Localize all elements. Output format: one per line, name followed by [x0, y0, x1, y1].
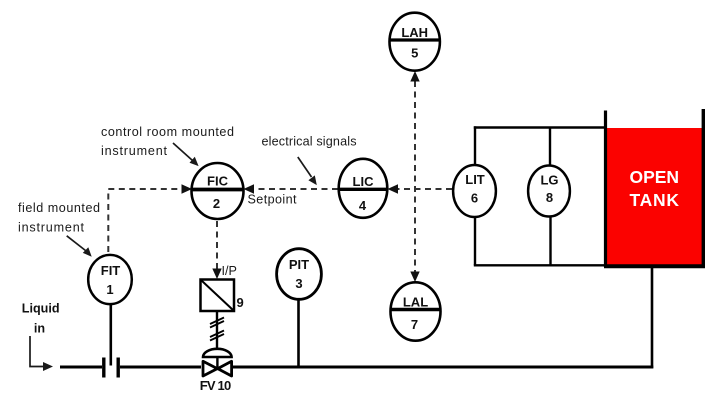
- svg-text:6: 6: [471, 191, 478, 206]
- wire: electrical dashed FIT to FIC vertical: [107, 189, 109, 252]
- standpipe bottom header: [474, 264, 605, 266]
- wire: electrical dashed LIC to FIC (setpoint): [253, 188, 338, 190]
- svg-text:instrument: instrument: [101, 144, 168, 158]
- pipe: riser up to tank bottom: [651, 266, 654, 368]
- svg-text:1: 1: [106, 282, 113, 297]
- tank liquid (red): [607, 128, 703, 265]
- wire: electrical dashed FIC to I/P: [216, 221, 218, 269]
- svg-text:FIT: FIT: [101, 263, 121, 278]
- svg-text:2: 2: [213, 196, 220, 211]
- svg-text:in: in: [34, 322, 45, 336]
- tank bottom: [604, 264, 705, 268]
- pneumatic slash marks: [210, 318, 224, 341]
- tank left wall: [604, 111, 607, 268]
- instrument bubble LAH 5: [390, 13, 440, 71]
- svg-text:Setpoint: Setpoint: [248, 193, 298, 207]
- annotation arrow: field mounted label to FIT: [67, 236, 92, 257]
- arrowhead into FIC left: [182, 184, 193, 193]
- svg-text:LG: LG: [540, 172, 558, 187]
- LIT bottom connection: [474, 216, 476, 265]
- valve stem: [216, 357, 218, 367]
- tank right wall: [702, 109, 705, 267]
- svg-text:FIC: FIC: [207, 174, 229, 189]
- arrowhead into LAL top: [410, 272, 419, 283]
- arrowhead into LAH bottom: [410, 71, 419, 82]
- svg-text:FV 10: FV 10: [200, 378, 232, 393]
- annotation arrow: control room label to FIC: [173, 143, 199, 166]
- svg-text:LIT: LIT: [465, 172, 485, 187]
- instrument bubble FIC 2: [192, 163, 244, 219]
- valve FV10 body: [203, 361, 232, 376]
- svg-text:3: 3: [295, 276, 302, 291]
- svg-text:LAL: LAL: [403, 295, 428, 310]
- pipe: between orifice and valve: [120, 366, 201, 369]
- standpipe top header: [474, 126, 606, 128]
- orifice flange bar right: [116, 358, 119, 378]
- pneumatic line I/P to valve actuator: [216, 311, 218, 351]
- pipe: valve to tank riser: [233, 366, 654, 369]
- svg-text:TANK: TANK: [630, 190, 680, 210]
- instrument bubble LIT 6: [453, 165, 496, 217]
- pipe: main line left of orifice: [60, 366, 102, 369]
- svg-text:OPEN: OPEN: [630, 167, 680, 187]
- svg-text:LIC: LIC: [353, 174, 375, 189]
- arrowhead into FIC right: [244, 184, 255, 193]
- svg-text:4: 4: [359, 198, 367, 213]
- svg-text:Liquid: Liquid: [22, 302, 60, 316]
- svg-text:field mounted: field mounted: [18, 201, 100, 215]
- instrument bubble FIT 1: [88, 255, 132, 304]
- svg-text:LAH: LAH: [401, 25, 428, 40]
- svg-text:I/P: I/P: [222, 264, 237, 278]
- svg-text:electrical signals: electrical signals: [262, 135, 357, 149]
- orifice flange bar left: [102, 358, 105, 378]
- svg-text:7: 7: [411, 317, 418, 332]
- instrument bubble LIC 4: [339, 159, 388, 218]
- LG bottom connection: [549, 216, 551, 265]
- I/P transducer box 9: [201, 280, 235, 312]
- wire: electrical dashed vertical to LAH and LAL: [414, 81, 416, 272]
- annotation arrow: electrical signals label to dashed line: [298, 157, 317, 185]
- LIT top connection: [474, 126, 476, 166]
- svg-text:9: 9: [237, 295, 244, 310]
- svg-text:instrument: instrument: [18, 221, 85, 235]
- FIT stem: [110, 303, 113, 366]
- instrument bubble PIT 3: [277, 249, 322, 300]
- wire: electrical dashed horizontal into FIC left: [108, 188, 182, 190]
- wire: electrical dashed LIT to LIC: [397, 188, 452, 190]
- liquid inlet elbow arrow: [30, 336, 44, 367]
- PIT stem: [297, 298, 300, 367]
- LG top connection: [549, 128, 551, 167]
- svg-text:control room mounted: control room mounted: [101, 125, 234, 139]
- svg-text:8: 8: [546, 190, 553, 205]
- instrument bubble LG 8: [528, 166, 570, 217]
- svg-text:PIT: PIT: [289, 257, 309, 272]
- valve actuator dome: [203, 349, 232, 357]
- arrowhead into I/P top: [212, 269, 221, 280]
- instrument bubble LAL 7: [391, 282, 441, 340]
- svg-text:5: 5: [411, 46, 418, 61]
- arrowhead into LIC right: [388, 184, 399, 193]
